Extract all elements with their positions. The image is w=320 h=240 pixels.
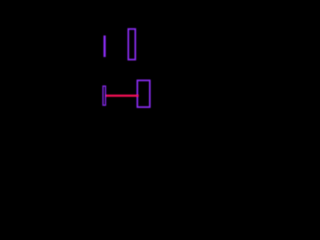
resistor R1 (upper rectangle) <box>128 29 135 60</box>
wire W1 (vertical stub near R1) <box>103 36 105 58</box>
capacitor C1 (narrow rectangle, lower-left) <box>103 86 106 105</box>
resistor R2 (lower rectangle) <box>137 80 149 107</box>
wire W2 (red horizontal wire) <box>106 95 139 97</box>
